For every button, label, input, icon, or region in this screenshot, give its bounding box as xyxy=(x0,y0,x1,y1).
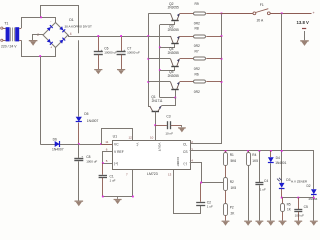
wire: top rail from AC junction to mid vertical xyxy=(41,6,79,34)
wire: COMP pin down xyxy=(174,170,201,214)
svg-text:CL: CL xyxy=(183,143,187,147)
node: junction Q3 base on bus xyxy=(159,46,161,48)
svg-text:R5: R5 xyxy=(287,202,291,206)
transistor Q2 xyxy=(148,2,194,25)
diode D1d (bottom-right edge) xyxy=(59,40,63,44)
ground (D4) xyxy=(267,221,275,226)
ground (C7) xyxy=(117,69,125,74)
svg-text:0R2: 0R2 xyxy=(194,67,200,71)
diode D5 xyxy=(76,112,99,123)
svg-text:1N4001: 1N4001 xyxy=(275,161,286,165)
diode D1b (top-right edge) xyxy=(59,26,63,30)
wire: lower sense link xyxy=(282,197,314,199)
svg-text:1 uF: 1 uF xyxy=(260,187,266,191)
svg-text:R1: R1 xyxy=(230,153,234,157)
wire: fuse to output terminal xyxy=(270,13,311,15)
wire: VC pin lead xyxy=(101,144,112,146)
svg-text:2N3055: 2N3055 xyxy=(168,74,179,78)
wire: base bus xyxy=(159,25,161,98)
svg-text:2N1711: 2N1711 xyxy=(152,99,163,103)
bridge rectifier D1 xyxy=(37,18,92,50)
wire: R1 to P1 xyxy=(225,166,227,178)
wire: CS rail xyxy=(190,151,314,190)
capacitor C8 xyxy=(74,144,97,201)
wire: D5 to D6 row xyxy=(78,123,80,145)
svg-text:R9: R9 xyxy=(195,2,199,6)
wire: transformer bottom lead down and right to bridge bottom xyxy=(22,40,56,56)
node: junction C4 xyxy=(259,150,261,152)
svg-text:C8: C8 xyxy=(86,155,90,159)
resistor R6 xyxy=(194,73,222,94)
node: junction D4 xyxy=(270,150,272,152)
resistor R4 xyxy=(247,151,259,221)
diode D1c (left-bottom edge) xyxy=(47,39,51,43)
node: junction V+ branch on D6 row xyxy=(100,143,102,145)
node: junction R4 chain xyxy=(247,150,249,152)
svg-text:5K6: 5K6 xyxy=(231,159,237,163)
node: junction NI / C1 xyxy=(102,162,104,164)
svg-text:2N3055: 2N3055 xyxy=(168,6,179,10)
capacitor C6 xyxy=(94,36,117,69)
ground (R5) xyxy=(279,221,287,226)
diode D3 (LED) xyxy=(277,178,291,198)
ground (C5) xyxy=(294,221,302,226)
svg-text:C5: C5 xyxy=(304,205,308,209)
svg-text:1K5: 1K5 xyxy=(231,186,237,190)
svg-text:1N4007: 1N4007 xyxy=(87,119,99,123)
svg-text:D3: D3 xyxy=(286,178,290,182)
node: junction Q4 base on bus xyxy=(159,69,161,71)
node: junction R1 chain xyxy=(225,150,227,152)
svg-text:VC: VC xyxy=(114,143,119,147)
svg-text:(-): (-) xyxy=(184,161,187,165)
svg-text:1K5: 1K5 xyxy=(252,159,258,163)
fuse F1 xyxy=(222,3,271,23)
svg-text:R2: R2 xyxy=(230,180,234,184)
resistor R5 xyxy=(281,198,292,221)
node: junction C5 xyxy=(297,197,299,199)
svg-text:20 A: 20 A xyxy=(257,18,264,22)
node: junction R8 on bus xyxy=(221,35,223,37)
node: junction rail-bus xyxy=(147,35,149,37)
node: output - terminal xyxy=(302,28,306,30)
node: junction D3/R5 xyxy=(281,197,283,199)
svg-text:D5: D5 xyxy=(84,112,88,116)
resistor R8 xyxy=(194,27,222,48)
svg-text:VOUT: VOUT xyxy=(157,143,161,152)
ground (C3) xyxy=(178,125,186,132)
node: junction D5 line on D6 row xyxy=(78,143,80,145)
svg-text:+: + xyxy=(101,48,103,52)
transistor Q5 xyxy=(148,70,194,97)
svg-text:R7: R7 xyxy=(195,50,199,54)
capacitor C7 xyxy=(117,36,140,69)
svg-text:T1: T1 xyxy=(4,21,8,25)
node: junction Q4 collector on bus xyxy=(147,58,149,60)
wire: P2 to ground xyxy=(225,216,227,221)
node: junction R6 on bus xyxy=(221,81,223,83)
svg-text:100 uF: 100 uF xyxy=(295,214,305,218)
op-amp U1 LM723 regulator xyxy=(105,134,193,176)
wire: transformer top lead up and right to bridge top xyxy=(22,18,56,29)
wire: AC bottom junction down to D6 row xyxy=(40,56,42,144)
wire: D6 row from AC corner to IC VC pin xyxy=(40,144,112,146)
node: junction C7 on rail xyxy=(120,35,122,37)
svg-text:D1: D1 xyxy=(69,18,74,22)
svg-text:1N4007: 1N4007 xyxy=(52,148,64,152)
svg-text:1000 uF: 1000 uF xyxy=(86,159,97,163)
node: junction fuse wire top of bus xyxy=(221,13,223,15)
transistor Q1 (driver) xyxy=(150,95,176,141)
svg-text:-: - xyxy=(50,19,51,23)
svg-text:11: 11 xyxy=(105,140,108,144)
node: junction sense/CS xyxy=(281,150,283,152)
potentiometer P1 xyxy=(224,178,237,191)
diode D1a (left-top edge) xyxy=(47,27,51,31)
wire: VREF to NI link xyxy=(103,152,113,164)
node: junction R7 on bus xyxy=(221,58,223,60)
node: junction INV / C2 xyxy=(200,182,202,184)
ground (C4) xyxy=(256,221,264,226)
svg-text:D6: D6 xyxy=(53,138,57,142)
resistor R9 xyxy=(194,2,222,25)
transistor Q3 xyxy=(148,24,194,47)
svg-text:2N3055: 2N3055 xyxy=(168,28,179,32)
capacitor C1 xyxy=(99,163,116,196)
diode D2 (zener) xyxy=(307,184,318,221)
node: junction zener/link xyxy=(313,197,315,199)
svg-text:0R2: 0R2 xyxy=(194,22,200,26)
svg-text:2N3055: 2N3055 xyxy=(168,51,179,55)
svg-text:(+): (+) xyxy=(114,161,118,165)
svg-text:H.V ZENER: H.V ZENER xyxy=(291,180,308,184)
node: junction bottom AC xyxy=(39,55,41,57)
capacitor C2 xyxy=(196,183,213,209)
svg-text:LM723: LM723 xyxy=(147,172,158,176)
svg-text:D2: D2 xyxy=(307,184,311,188)
transistor Q4 xyxy=(148,47,194,70)
svg-text:30 A KÖPRÜ DİYOT: 30 A KÖPRÜ DİYOT xyxy=(65,23,93,28)
svg-text:1 uF: 1 uF xyxy=(207,205,213,209)
diode D4 xyxy=(268,151,287,221)
svg-text:D4: D4 xyxy=(276,156,280,160)
node: junction Q5 base / Q1 emitter xyxy=(174,97,176,99)
resistor R1 xyxy=(224,151,237,166)
ground (V-) xyxy=(114,197,122,205)
node: junction C1 bottom xyxy=(102,196,104,198)
svg-text:+: + xyxy=(50,46,52,50)
node: junction V- bottom xyxy=(132,196,134,198)
svg-text:12: 12 xyxy=(129,136,133,140)
svg-text:V+: V+ xyxy=(136,143,140,147)
ground (C6) xyxy=(94,69,102,74)
svg-text:C4: C4 xyxy=(264,179,268,183)
svg-text:C3: C3 xyxy=(166,114,170,118)
svg-text:1 uF: 1 uF xyxy=(110,178,116,182)
svg-text:F1: F1 xyxy=(260,3,264,7)
svg-text:13: 13 xyxy=(168,173,172,177)
diode D6 xyxy=(52,138,64,152)
svg-text:+: + xyxy=(81,155,83,159)
svg-text:10000 uF: 10000 uF xyxy=(127,51,140,55)
node: junction Q1 base / C3 xyxy=(154,124,156,126)
wire: bridge left vertex to ground xyxy=(33,35,44,41)
svg-text:COMP: COMP xyxy=(176,157,180,166)
wire: P1 to P2 xyxy=(225,191,227,204)
svg-text:220 / 24 V: 220 / 24 V xyxy=(1,45,17,49)
svg-text:+: + xyxy=(123,48,125,52)
svg-text:10000 uF: 10000 uF xyxy=(104,51,117,55)
wire: mid vertical below rail crossing down to D5 xyxy=(78,40,80,116)
wire: V+ branch loop xyxy=(102,129,133,144)
svg-text:0R2: 0R2 xyxy=(194,90,200,94)
node: junction C6 on rail xyxy=(97,35,99,37)
ground (C8) xyxy=(75,201,84,207)
wire: emitter bus (output) xyxy=(190,13,222,143)
capacitor C5 xyxy=(294,198,308,221)
node: junction output sense xyxy=(281,12,283,14)
node: junction AC top rail xyxy=(40,16,42,18)
svg-text:10: 10 xyxy=(150,136,154,140)
wire: V- ground link xyxy=(103,170,133,197)
svg-text:R8: R8 xyxy=(195,27,199,31)
wire: INV pin to divider xyxy=(190,163,224,183)
svg-text:CS: CS xyxy=(183,150,188,154)
svg-text:10 nF: 10 nF xyxy=(165,132,173,136)
wire: output sense vertical xyxy=(281,13,283,183)
ground (P2) xyxy=(222,221,230,226)
capacitor C3 xyxy=(155,114,182,135)
capacitor C4 xyxy=(255,151,268,221)
svg-text:0R2: 0R2 xyxy=(194,44,200,48)
node: junction Q5 collector on bus xyxy=(147,81,149,83)
potentiometer P2 xyxy=(224,204,236,216)
ground (D2) xyxy=(310,221,318,226)
svg-text:V REF: V REF xyxy=(114,150,124,154)
svg-text:P2: P2 xyxy=(230,206,234,210)
svg-text:R6: R6 xyxy=(195,73,199,77)
transformer T1 xyxy=(1,21,22,48)
svg-text:4: 4 xyxy=(70,32,72,36)
ground (output) xyxy=(300,31,309,46)
svg-text:R4: R4 xyxy=(252,153,256,157)
svg-text:13.8 V: 13.8 V xyxy=(297,20,310,25)
svg-text:U1: U1 xyxy=(113,134,118,138)
wire: collector bus xyxy=(149,14,150,107)
wire: main unregulated rail from bridge right vertex to collector bus xyxy=(68,36,148,38)
ground (bridge minus) xyxy=(29,40,38,46)
ground (R4) xyxy=(244,221,252,226)
resistor R7 xyxy=(194,50,222,71)
